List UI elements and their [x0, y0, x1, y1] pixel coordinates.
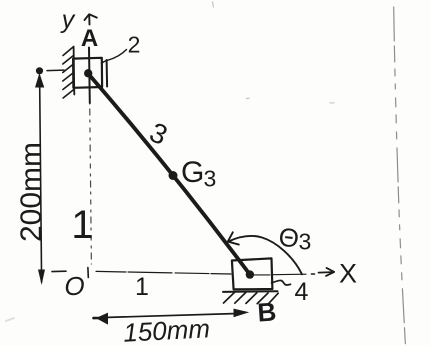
svg-text:G: G	[181, 156, 204, 189]
svg-text:A: A	[81, 25, 98, 52]
svg-text:O: O	[64, 271, 84, 301]
svg-text:3: 3	[204, 166, 217, 192]
svg-text:1: 1	[135, 273, 149, 301]
svg-text:150mm: 150mm	[123, 313, 211, 346]
svg-text:1: 1	[71, 203, 93, 247]
svg-text:3: 3	[299, 229, 312, 255]
svg-text:y: y	[60, 6, 76, 34]
svg-text:B: B	[256, 296, 277, 327]
svg-text:X: X	[339, 259, 357, 289]
svg-text:Θ: Θ	[277, 222, 300, 254]
svg-text:200mm: 200mm	[15, 142, 48, 242]
svg-text:4: 4	[295, 278, 309, 306]
svg-text:2: 2	[128, 32, 141, 58]
svg-text:3: 3	[145, 116, 172, 151]
